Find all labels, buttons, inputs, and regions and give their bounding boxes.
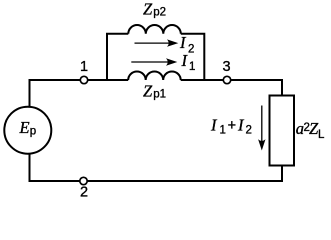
svg-text:2: 2 [188, 43, 194, 55]
svg-text:p1: p1 [153, 89, 166, 101]
svg-text:L: L [318, 129, 325, 141]
svg-text:Z: Z [143, 0, 153, 19]
svg-text:1: 1 [189, 61, 195, 73]
svg-text:p: p [30, 125, 36, 137]
svg-text:E: E [19, 118, 30, 137]
svg-text:3: 3 [223, 59, 231, 75]
svg-text:1: 1 [220, 125, 226, 137]
svg-text:+: + [228, 118, 236, 134]
svg-text:Z: Z [143, 82, 153, 101]
svg-text:2: 2 [80, 185, 88, 201]
svg-text:1: 1 [80, 59, 88, 75]
svg-text:2: 2 [246, 125, 252, 137]
svg-text:p2: p2 [153, 6, 166, 18]
